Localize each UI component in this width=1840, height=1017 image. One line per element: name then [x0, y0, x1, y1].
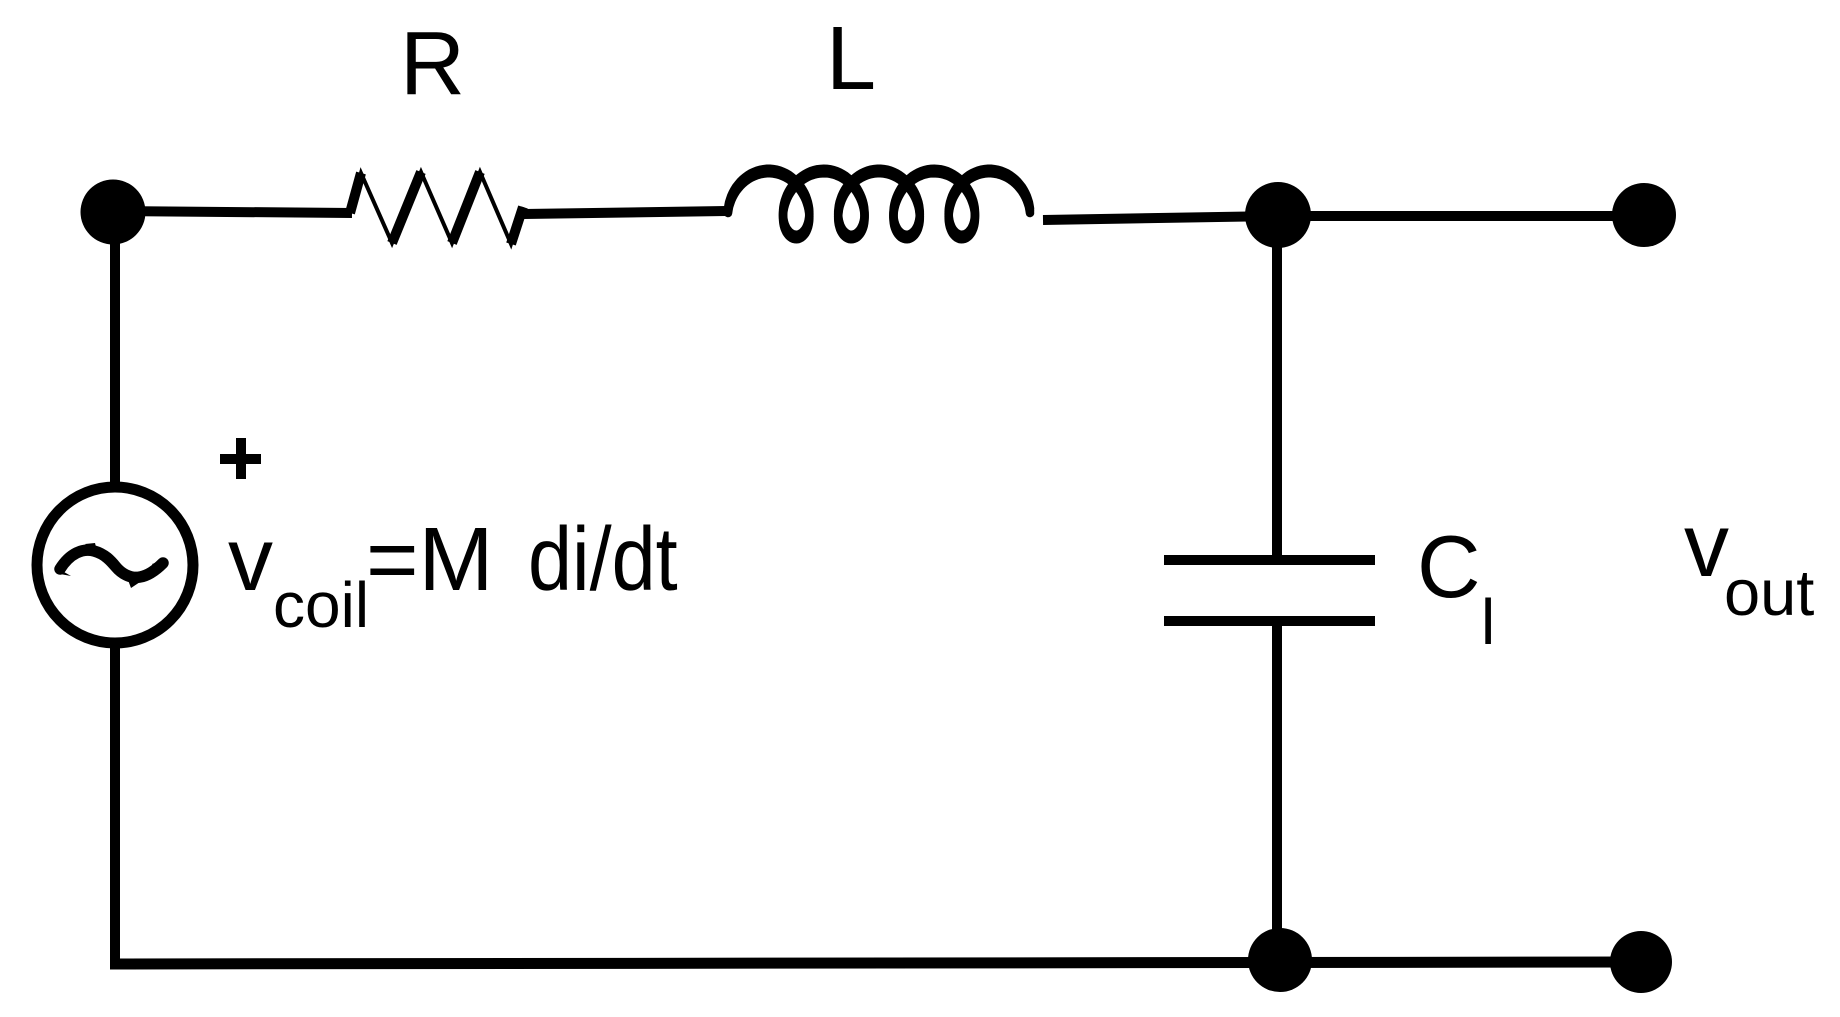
- wire bottom horizontal: [110, 962, 1641, 964]
- svg-text:L: L: [826, 9, 876, 109]
- capacitor Cl bottom plate: [1164, 616, 1375, 626]
- AC source sine wave: [60, 550, 163, 577]
- svg-text:=M: =M: [366, 510, 494, 610]
- capacitor Cl top plate: [1164, 555, 1375, 565]
- svg-text:v: v: [228, 510, 273, 610]
- wire cap bottom: [1272, 621, 1282, 962]
- wire between resistor and inductor: [524, 211, 726, 214]
- wire cap top: [1272, 215, 1282, 560]
- plus sign: [220, 454, 261, 464]
- wire source top: [110, 212, 120, 490]
- wire source bottom: [110, 640, 120, 963]
- wire inductor to node: [1043, 216, 1278, 220]
- wire node to top-right: [1278, 211, 1644, 221]
- node top-middle: [1245, 182, 1311, 248]
- svg-text:C: C: [1417, 517, 1481, 616]
- svg-text:coil: coil: [273, 569, 369, 641]
- AC source V1 circle: [37, 487, 193, 643]
- svg-text:di/dt: di/dt: [528, 508, 678, 609]
- node top-right: [1612, 183, 1676, 247]
- svg-text:R: R: [400, 14, 465, 114]
- inductor L: [728, 169, 1030, 240]
- resistor R: [350, 172, 523, 244]
- svg-text:v: v: [1684, 496, 1729, 596]
- sine brush tips: [57, 568, 71, 576]
- node top-left: [81, 180, 146, 245]
- node bottom-right: [1610, 931, 1672, 993]
- svg-text:out: out: [1724, 556, 1814, 629]
- svg-text:l: l: [1481, 586, 1495, 658]
- wire top-left horizontal: [113, 211, 352, 213]
- node bottom-middle: [1248, 928, 1312, 992]
